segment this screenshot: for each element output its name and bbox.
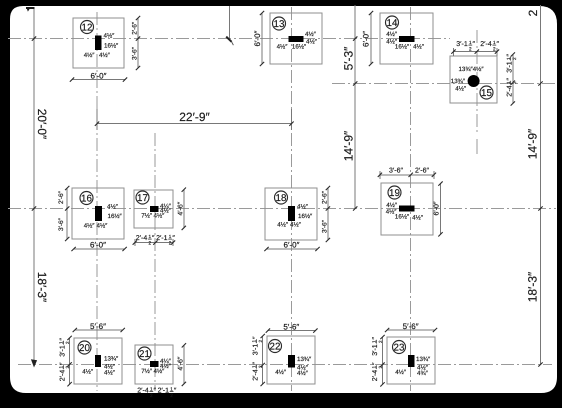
svg-text:4½″: 4½″ — [297, 370, 309, 377]
svg-text:3′-6″: 3′-6″ — [389, 167, 403, 174]
svg-text:12: 12 — [82, 23, 93, 34]
svg-text:2′-4: 2′-4 — [137, 387, 149, 394]
svg-text:2: 2 — [378, 365, 383, 368]
svg-text:1: 1 — [150, 387, 153, 392]
svg-text:6′-0″: 6′-0″ — [361, 31, 370, 47]
svg-text:2: 2 — [150, 393, 153, 398]
svg-text:2: 2 — [526, 9, 540, 16]
svg-text:7½″: 7½″ — [141, 213, 153, 220]
svg-text:2: 2 — [493, 47, 496, 52]
svg-text:2′-6″: 2′-6″ — [131, 21, 138, 35]
svg-text:1: 1 — [252, 365, 257, 368]
svg-text:1: 1 — [506, 81, 511, 84]
svg-text:2′-4: 2′-4 — [136, 235, 148, 242]
svg-text:2′-4: 2′-4 — [507, 85, 514, 97]
svg-text:2′-6″: 2′-6″ — [415, 167, 429, 174]
svg-text:7½″: 7½″ — [141, 368, 153, 375]
svg-text:4½″: 4½″ — [297, 204, 309, 211]
svg-text:16: 16 — [81, 194, 92, 205]
svg-text:15: 15 — [481, 88, 492, 99]
svg-text:3′-1: 3′-1 — [372, 344, 379, 356]
svg-text:1: 1 — [371, 340, 376, 343]
svg-text:14′-9″: 14′-9″ — [342, 130, 356, 161]
svg-text:3′-1: 3′-1 — [507, 61, 514, 73]
svg-text:23: 23 — [394, 343, 405, 354]
svg-text:6′-0″: 6′-0″ — [253, 30, 262, 46]
svg-text:2′-6″: 2′-6″ — [58, 190, 65, 204]
svg-text:4½″: 4½″ — [305, 31, 317, 38]
svg-text:4½″: 4½″ — [154, 368, 166, 375]
svg-text:3′-1: 3′-1 — [456, 41, 468, 48]
svg-text:18: 18 — [276, 193, 287, 204]
svg-text:22: 22 — [270, 342, 281, 353]
svg-text:6′-0″: 6′-0″ — [91, 71, 107, 80]
svg-text:4½″: 4½″ — [275, 369, 287, 376]
svg-text:2: 2 — [149, 241, 152, 246]
svg-text:18′-3″: 18′-3″ — [526, 271, 540, 302]
svg-text:13¾″4½″: 13¾″4½″ — [458, 66, 484, 73]
svg-text:5′-6″: 5′-6″ — [90, 322, 106, 331]
svg-text:5′-6″: 5′-6″ — [283, 322, 299, 331]
svg-text:16½″: 16½″ — [292, 44, 307, 51]
svg-text:3′-1: 3′-1 — [253, 344, 260, 356]
svg-text:2: 2 — [258, 339, 263, 342]
svg-text:20: 20 — [79, 343, 90, 354]
svg-text:6′-0″: 6′-0″ — [284, 241, 300, 250]
svg-text:4½″: 4½″ — [413, 44, 425, 51]
svg-text:2′-6″: 2′-6″ — [322, 190, 329, 204]
svg-text:1: 1 — [149, 234, 152, 239]
svg-text:4½″: 4½″ — [82, 369, 94, 376]
svg-text:20′-0″: 20′-0″ — [35, 109, 49, 140]
svg-text:13¾″: 13¾″ — [451, 78, 466, 85]
svg-text:1: 1 — [506, 57, 511, 60]
svg-text:4½″: 4½″ — [277, 222, 289, 229]
svg-text:1: 1 — [59, 341, 64, 344]
svg-text:1: 1 — [469, 40, 472, 45]
svg-text:2: 2 — [378, 340, 383, 343]
svg-text:4½″: 4½″ — [277, 44, 289, 51]
svg-text:4½″: 4½″ — [386, 31, 398, 38]
svg-text:4½″: 4½″ — [395, 369, 407, 376]
svg-text:1: 1 — [371, 365, 376, 368]
svg-text:16½″: 16½″ — [298, 213, 313, 220]
svg-text:4½″: 4½″ — [84, 223, 96, 230]
svg-text:1: 1 — [252, 339, 257, 342]
svg-text:3′-6″: 3′-6″ — [322, 219, 329, 233]
svg-text:16½″: 16½″ — [108, 213, 123, 220]
svg-text:4½″: 4½″ — [455, 86, 467, 93]
svg-text:2: 2 — [512, 57, 517, 60]
svg-text:21: 21 — [139, 349, 150, 360]
svg-text:16½″: 16½″ — [395, 214, 410, 221]
svg-text:1: 1 — [59, 365, 64, 368]
svg-text:4½″: 4½″ — [290, 222, 302, 229]
svg-text:4½″: 4½″ — [84, 52, 96, 59]
svg-text:5′-6″: 5′-6″ — [403, 322, 419, 331]
svg-text:2: 2 — [512, 81, 517, 84]
svg-text:4½″: 4½″ — [306, 39, 318, 46]
svg-text:3′-1: 3′-1 — [60, 345, 67, 357]
svg-text:4½″: 4½″ — [154, 213, 166, 220]
svg-text:4′-6″: 4′-6″ — [178, 201, 185, 215]
svg-text:2: 2 — [258, 365, 263, 368]
svg-text:13¾″: 13¾″ — [104, 356, 119, 363]
svg-text:5′-3″: 5′-3″ — [342, 46, 356, 71]
svg-text:13¾″: 13¾″ — [297, 356, 312, 363]
svg-text:2′-1: 2′-1 — [156, 235, 168, 242]
svg-text:14: 14 — [387, 18, 398, 29]
svg-text:4½″: 4½″ — [412, 215, 424, 222]
svg-text:1: 1 — [493, 40, 496, 45]
svg-text:4¾″: 4¾″ — [417, 370, 429, 377]
svg-text:2′-4: 2′-4 — [480, 41, 492, 48]
svg-text:17: 17 — [137, 193, 148, 204]
svg-text:2: 2 — [65, 365, 70, 368]
svg-text:2: 2 — [469, 47, 472, 52]
svg-text:13¾″: 13¾″ — [416, 356, 431, 363]
svg-text:4½″: 4½″ — [107, 204, 119, 211]
svg-text:2′-1: 2′-1 — [158, 387, 170, 394]
svg-text:14′-9″: 14′-9″ — [526, 128, 540, 159]
svg-text:4′-6″: 4′-6″ — [178, 356, 185, 370]
svg-text:3′-6″: 3′-6″ — [131, 46, 138, 60]
svg-text:3′-6″: 3′-6″ — [58, 217, 65, 231]
svg-text:4½″: 4½″ — [99, 52, 111, 59]
svg-text:6′-0″: 6′-0″ — [90, 241, 106, 250]
svg-text:16½″: 16½″ — [104, 43, 119, 50]
svg-text:4½″: 4½″ — [104, 370, 116, 377]
svg-text:4½″: 4½″ — [104, 33, 116, 40]
svg-text:2′-4: 2′-4 — [60, 370, 67, 382]
svg-text:6′-0″: 6′-0″ — [434, 201, 441, 215]
svg-text:19: 19 — [389, 188, 400, 199]
svg-text:22′-9″: 22′-9″ — [179, 110, 210, 124]
svg-text:2′-4: 2′-4 — [253, 369, 260, 381]
svg-text:4½″: 4½″ — [97, 223, 109, 230]
svg-text:2′-4: 2′-4 — [372, 370, 379, 382]
svg-text:2: 2 — [65, 341, 70, 344]
svg-text:18′-3″: 18′-3″ — [35, 272, 49, 303]
svg-text:16½″: 16½″ — [395, 44, 410, 51]
svg-text:13: 13 — [274, 19, 285, 30]
